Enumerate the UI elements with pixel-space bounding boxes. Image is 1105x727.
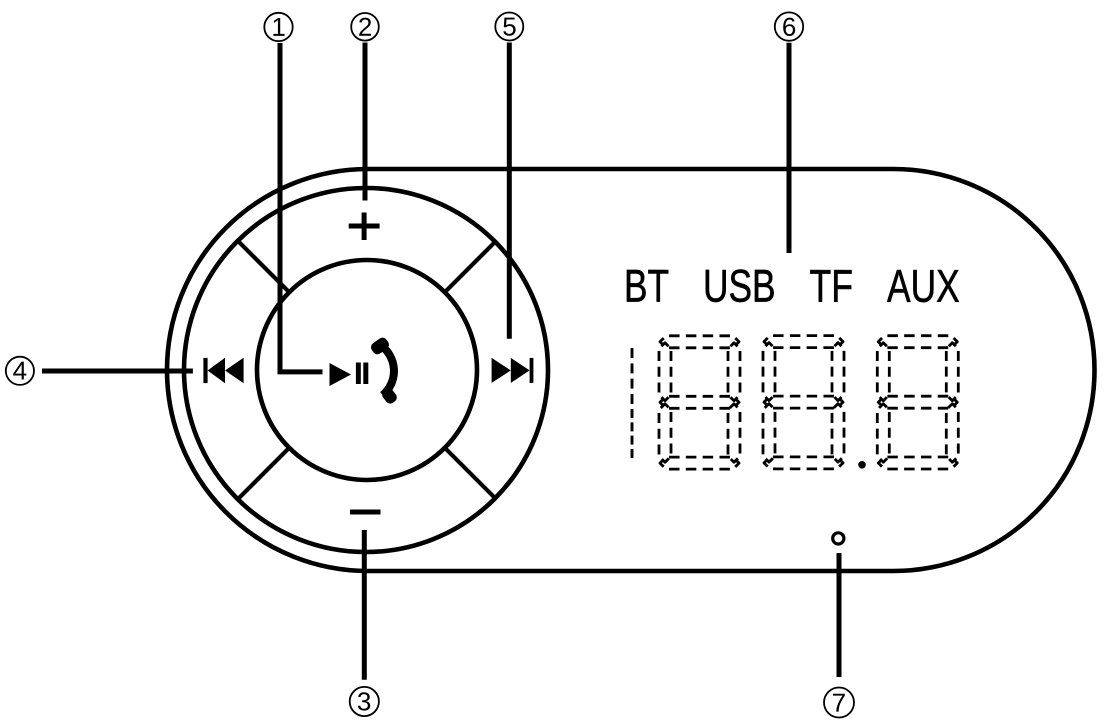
svg-text:AUX: AUX bbox=[887, 260, 960, 312]
svg-text:USB: USB bbox=[703, 260, 776, 312]
svg-text:6: 6 bbox=[782, 12, 796, 42]
svg-text:TF: TF bbox=[809, 260, 853, 312]
svg-text:4: 4 bbox=[13, 356, 27, 386]
svg-text:BT: BT bbox=[624, 260, 669, 312]
svg-text:7: 7 bbox=[832, 688, 846, 718]
svg-text:2: 2 bbox=[358, 12, 372, 42]
svg-text:5: 5 bbox=[502, 11, 516, 41]
svg-text:3: 3 bbox=[357, 686, 371, 716]
svg-text:1: 1 bbox=[271, 12, 285, 42]
